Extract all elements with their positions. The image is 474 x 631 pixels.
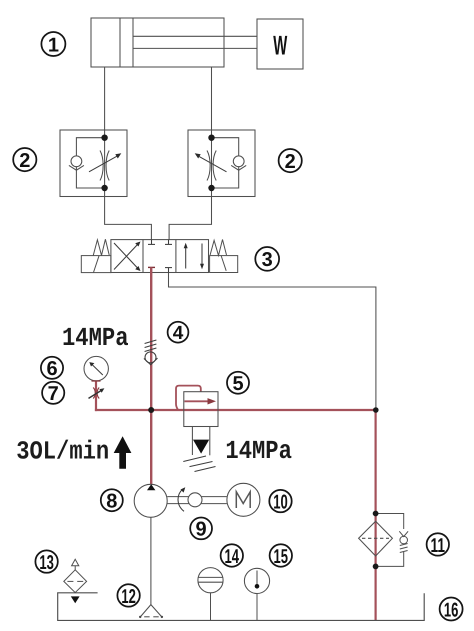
center position closed ports xyxy=(148,240,172,273)
flow valve right bypass wire xyxy=(212,138,239,188)
svg-text:5: 5 xyxy=(232,373,243,395)
svg-text:2: 2 xyxy=(19,150,30,172)
label 6 xyxy=(41,357,63,380)
svg-text:4: 4 xyxy=(173,323,184,344)
label 1 xyxy=(41,32,65,56)
label 14 xyxy=(221,544,243,568)
red return line xyxy=(375,410,377,621)
suction line xyxy=(150,517,152,605)
flow valve right throttle xyxy=(207,151,216,181)
label 10 xyxy=(269,490,291,514)
label 13 xyxy=(35,550,57,574)
red P pressure line xyxy=(150,267,152,485)
level gauge 14 xyxy=(198,568,223,621)
svg-text:11: 11 xyxy=(431,535,446,557)
parallel arrows right position xyxy=(184,243,204,269)
label 9 xyxy=(190,518,212,541)
flow valve right arrow xyxy=(195,153,227,172)
left solenoid box xyxy=(81,256,111,273)
svg-text:8: 8 xyxy=(106,490,117,512)
label 16 xyxy=(440,598,463,622)
label 4 xyxy=(168,322,189,344)
strainer 12 xyxy=(139,605,163,619)
shutoff throttle 7 xyxy=(89,388,105,399)
drive shaft xyxy=(167,497,227,504)
filter node dots xyxy=(373,511,379,517)
load W box xyxy=(257,19,303,69)
flow control valve left box xyxy=(60,130,127,197)
flow direction thick arrow xyxy=(114,436,132,469)
flow valve left check valve xyxy=(69,156,84,170)
svg-text:7: 7 xyxy=(48,383,59,405)
flow valve right check valve xyxy=(231,156,246,170)
thermometer 15 xyxy=(244,568,269,620)
cylinder body xyxy=(91,18,224,67)
label 5 xyxy=(227,372,249,395)
svg-text:3: 3 xyxy=(262,249,273,271)
svg-text:15: 15 xyxy=(274,546,289,568)
tank outline xyxy=(58,593,425,621)
filter bypass wire xyxy=(376,514,404,530)
svg-text:9: 9 xyxy=(196,519,207,541)
relief valve neck and poppet xyxy=(192,427,209,456)
rotation arc 9 xyxy=(178,487,185,511)
node dots right flow valve xyxy=(208,135,214,141)
wire cylinder right port to valve B xyxy=(169,67,211,240)
node dots left flow valve xyxy=(101,135,107,141)
relief valve red arrow xyxy=(185,398,217,404)
relief valve 5 box xyxy=(184,392,218,427)
svg-text:14MPa: 14MPa xyxy=(62,323,129,353)
coupling circle xyxy=(188,493,202,507)
bypass check valve xyxy=(399,531,408,552)
svg-text:3OL/min: 3OL/min xyxy=(16,436,109,466)
pressure gauge 6 xyxy=(84,356,108,381)
directional valve body boxes xyxy=(111,240,209,273)
flow valve left bypass wire xyxy=(76,138,104,188)
label 3 xyxy=(255,247,279,271)
piston rod xyxy=(133,36,257,48)
svg-text:14MPa: 14MPa xyxy=(225,436,292,466)
relief valve 5 pilot line xyxy=(176,386,201,410)
motor 10 xyxy=(227,483,260,516)
right solenoid box xyxy=(210,256,238,273)
label 2 right xyxy=(279,149,302,173)
red gauge drop line xyxy=(95,381,97,411)
svg-text:2: 2 xyxy=(285,151,296,173)
flow valve left throttle xyxy=(100,151,109,181)
pump 8 xyxy=(134,484,167,517)
P port crossbar xyxy=(148,266,155,268)
left spring xyxy=(93,239,109,255)
label 15 xyxy=(270,544,292,568)
red main manifold line xyxy=(95,409,376,411)
junction dot P x main xyxy=(148,407,154,413)
check valve 4 xyxy=(144,340,158,365)
wire T return to tank line xyxy=(169,273,376,411)
air breather 13 xyxy=(64,559,87,603)
return filter 11 diamond xyxy=(359,521,393,556)
svg-text:10: 10 xyxy=(273,492,288,514)
right spring xyxy=(210,240,226,256)
label 11 xyxy=(427,533,449,557)
label 12 xyxy=(117,584,139,608)
flow valve left arrow xyxy=(89,153,121,172)
svg-text:6: 6 xyxy=(46,358,57,380)
junction dot T x main xyxy=(373,407,379,413)
label 7 xyxy=(42,382,64,405)
svg-text:13: 13 xyxy=(39,552,54,574)
wire cylinder left port to valve A xyxy=(105,67,152,240)
crossed arrows left position xyxy=(114,242,141,272)
label 2 left xyxy=(13,148,36,172)
flow control valve right box xyxy=(188,130,255,197)
svg-text:W: W xyxy=(273,31,287,61)
relief valve spring xyxy=(183,456,215,472)
svg-text:16: 16 xyxy=(444,599,459,621)
label 8 xyxy=(101,489,123,512)
svg-text:12: 12 xyxy=(121,586,136,608)
svg-text:14: 14 xyxy=(225,546,240,568)
svg-text:1: 1 xyxy=(48,34,59,56)
